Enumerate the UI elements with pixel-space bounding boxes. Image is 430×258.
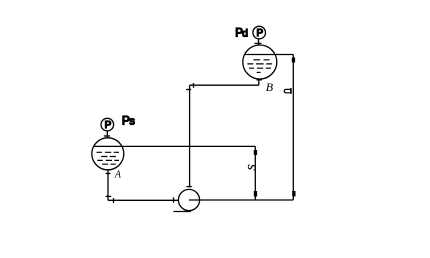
label A — [114, 170, 122, 181]
tick on suction pipe near corner — [113, 198, 115, 203]
tank A liquid level dashes — [97, 152, 120, 164]
svg-text:P: P — [105, 120, 112, 131]
pump base line — [174, 211, 192, 213]
tick on tank A nozzle — [106, 173, 111, 175]
wire: tank B bottom nozzle — [258, 79, 260, 86]
svg-text:B: B — [266, 80, 274, 94]
svg-text:d: d — [242, 28, 248, 40]
gauge Ps circle — [101, 118, 114, 131]
wire: suction pipe horizontal to pump — [108, 199, 179, 201]
gauge Pd circle — [253, 26, 266, 39]
wire: gauge Pd stem — [258, 39, 260, 45]
svg-text:s: s — [129, 115, 135, 127]
wire: datum line S vertical — [254, 146, 256, 200]
tick on tank B nozzle — [257, 79, 263, 81]
wire: tank B liquid surface datum line — [244, 54, 293, 56]
tick at pump top connection — [186, 186, 191, 188]
wire: datum line D vertical — [292, 55, 294, 200]
tank A vessel circle — [92, 138, 124, 170]
pump P1 circle — [178, 189, 199, 210]
svg-text:A: A — [114, 170, 122, 181]
wire: tank A liquid surface datum line — [94, 145, 256, 147]
wire: discharge pipe horizontal from B — [190, 84, 259, 86]
label D (rotated) — [284, 88, 291, 94]
tank B liquid level dashes — [247, 60, 272, 73]
wire: discharge pipe vertical to pump — [189, 85, 191, 187]
wire: gauge Ps stem — [106, 131, 108, 138]
tick on gauge Pd stem — [255, 42, 262, 44]
tick on suction drop lower — [106, 195, 112, 197]
node: S bottom marker — [254, 191, 257, 197]
wire: pump discharge centerline to datum D — [189, 199, 293, 201]
node: D top marker — [292, 58, 295, 63]
label B — [266, 80, 274, 94]
tick on gauge Ps stem — [104, 135, 110, 137]
node: D bottom marker — [292, 191, 295, 197]
tick on discharge pipe vertical upper — [186, 89, 191, 91]
node: S top marker — [254, 150, 257, 155]
wire: tank A bottom nozzle and suction drop — [107, 170, 109, 201]
tick on suction pipe near pump — [173, 197, 175, 202]
tank B vessel circle — [243, 45, 277, 79]
label S (rotated) — [245, 165, 259, 171]
svg-text:S: S — [245, 165, 259, 171]
svg-text:P: P — [257, 28, 264, 39]
tick on discharge pipe horizontal — [193, 83, 195, 88]
